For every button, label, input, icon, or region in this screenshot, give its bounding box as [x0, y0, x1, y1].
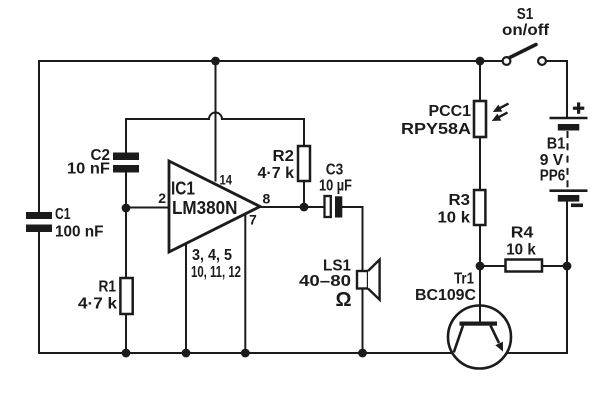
svg-text:R2: R2 [273, 148, 295, 165]
op-amp IC1 LM380N [169, 161, 260, 252]
light arrow 2 [499, 113, 508, 118]
svg-text:10 k: 10 k [438, 210, 471, 227]
transistor Q1 Tr1 BC109C [448, 306, 511, 369]
transistor base lead crossing circle [479, 306, 481, 322]
wire C2 bottom to node [125, 173, 127, 209]
battery plate long bottom [550, 189, 588, 192]
svg-text:2: 2 [158, 190, 166, 206]
svg-text:10 µF: 10 µF [319, 178, 352, 195]
battery plate thick top [558, 124, 580, 131]
junction pin 7 bottom [241, 349, 250, 358]
svg-text:R1: R1 [99, 279, 117, 296]
junction C2/R1/pin2 node [122, 204, 131, 213]
battery plate thick bottom [558, 195, 580, 202]
wire node to transistor base [479, 266, 481, 322]
wire bottom rail right [507, 352, 568, 354]
svg-text:8: 8 [263, 191, 271, 207]
wire output pin 8 to C3 [260, 206, 325, 208]
wire R3 to node [479, 225, 481, 266]
svg-text:10 nF: 10 nF [67, 161, 110, 178]
svg-text:40–80: 40–80 [299, 273, 351, 290]
battery dashed link [567, 131, 569, 190]
svg-text:Tr1: Tr1 [454, 271, 474, 288]
wire pin 7 to rail [244, 213, 246, 354]
wire left rail upper [38, 61, 40, 212]
junction output node [300, 203, 309, 212]
resistor R1 [120, 278, 132, 314]
svg-text:PP6: PP6 [540, 168, 566, 185]
junction R4 right rail [563, 262, 572, 271]
wire pin 2 input [126, 207, 169, 209]
transistor collector leg [454, 326, 463, 353]
wire node to R1 top [125, 208, 127, 278]
resistor R2 [298, 146, 310, 181]
wire R2 bottom to output node [303, 181, 305, 207]
wire top rail to PCC1 [479, 61, 481, 101]
svg-text:9 V: 9 V [540, 152, 564, 169]
switch S1 [503, 57, 511, 65]
capacitor C2 [113, 153, 139, 161]
svg-text:PCC1: PCC1 [429, 103, 472, 120]
wire right rail [566, 202, 568, 353]
junction speaker bottom [358, 349, 367, 358]
svg-text:C3: C3 [326, 162, 344, 179]
wire speaker to rail [362, 289, 364, 354]
light arrow 1 [500, 104, 509, 109]
wire node to R4 [480, 265, 506, 267]
svg-text:10, 11, 12: 10, 11, 12 [191, 264, 241, 281]
wire pin 14 to top rail [215, 61, 217, 181]
wire feedback C2 to R2 with hop [126, 113, 304, 153]
junction top PCC1 [476, 57, 485, 66]
svg-text:S1: S1 [517, 6, 534, 23]
svg-text:LS1: LS1 [323, 258, 351, 275]
svg-text:IC1: IC1 [171, 179, 195, 199]
wire R4 to right rail [542, 265, 567, 267]
resistor R3 [474, 190, 485, 225]
svg-text:Ω: Ω [335, 289, 351, 311]
svg-text:14: 14 [220, 172, 233, 188]
wire battery plus to switch [546, 61, 567, 117]
loudspeaker LS1 [357, 271, 368, 289]
junction pins 3,4,5 bottom [182, 349, 191, 358]
junction top pin14 [211, 57, 220, 66]
wire bottom rail left [39, 352, 454, 354]
svg-text:B1: B1 [547, 136, 566, 153]
transistor emitter leg with arrow [491, 326, 500, 344]
svg-text:C1: C1 [55, 206, 71, 223]
battery plus sign [573, 107, 584, 110]
junction R3/R4/base node [476, 262, 485, 271]
battery plate long top [550, 117, 588, 120]
wire C3 to speaker [343, 207, 363, 271]
wire pins 3,4,5,10,11,12 to rail [185, 243, 187, 353]
capacitor C3 [325, 196, 331, 217]
battery minus sign [571, 204, 583, 208]
transistor base bar [460, 322, 498, 326]
wire R1 bottom to rail [125, 314, 127, 353]
svg-text:3, 4, 5: 3, 4, 5 [192, 247, 232, 264]
svg-text:BC109C: BC109C [415, 287, 476, 304]
capacitor C1 [26, 212, 52, 219]
resistor R4 [506, 260, 543, 272]
wire top rail [39, 60, 503, 62]
svg-text:100 nF: 100 nF [55, 224, 104, 241]
svg-text:4·7 k: 4·7 k [258, 165, 295, 182]
svg-text:on/off: on/off [502, 22, 550, 39]
wire left rail lower [38, 232, 40, 353]
switch lever [510, 45, 536, 58]
svg-text:LM380N: LM380N [172, 198, 238, 218]
svg-text:R3: R3 [449, 192, 471, 209]
junction R1 bottom [122, 349, 131, 358]
svg-text:R4: R4 [511, 225, 534, 242]
svg-text:RPY58A: RPY58A [401, 121, 472, 138]
svg-text:10 k: 10 k [506, 242, 536, 259]
photocell PCC1 [474, 101, 486, 137]
svg-text:4·7 k: 4·7 k [78, 296, 117, 313]
wire PCC1 to R3 [479, 137, 481, 190]
svg-text:7: 7 [249, 212, 257, 228]
